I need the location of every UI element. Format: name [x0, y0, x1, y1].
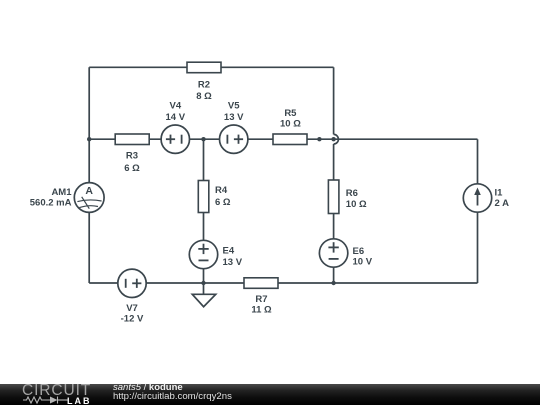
- node dot right of R5: [317, 137, 321, 141]
- svg-text:8 Ω: 8 Ω: [196, 91, 212, 102]
- svg-text:V5: V5: [228, 101, 240, 112]
- resistor R2: [187, 62, 221, 102]
- wire left rail: [88, 67, 90, 283]
- voltage source E6: [319, 239, 372, 267]
- svg-text:V4: V4: [169, 101, 181, 112]
- svg-text:R7: R7: [255, 294, 267, 305]
- svg-text:A: A: [85, 185, 93, 197]
- svg-text:V7: V7: [126, 303, 138, 314]
- wire center vertical: [203, 139, 205, 283]
- wire mid-right vertical upper: [333, 67, 335, 134]
- svg-text:6 Ω: 6 Ω: [124, 163, 140, 174]
- CircuitLab logo: [0, 384, 100, 405]
- footer text line 1: [113, 383, 183, 393]
- voltage source V5: [220, 101, 248, 154]
- svg-text:13 V: 13 V: [224, 112, 244, 123]
- wire middle horizontal: [89, 138, 477, 140]
- svg-text:I1: I1: [495, 188, 504, 199]
- svg-text:13 V: 13 V: [223, 257, 243, 268]
- node dot at hop center: [331, 137, 335, 141]
- resistor R5: [273, 108, 307, 144]
- resistor R3: [115, 134, 149, 174]
- svg-text:AM1: AM1: [51, 187, 72, 198]
- footer text line 2: [113, 391, 232, 402]
- wire right rail: [477, 139, 479, 283]
- resistor R6: [328, 180, 367, 214]
- wire mid-right vertical lower: [333, 144, 335, 283]
- svg-text:10 Ω: 10 Ω: [346, 199, 367, 210]
- svg-text:E6: E6: [353, 246, 365, 257]
- svg-text:10 V: 10 V: [353, 256, 373, 267]
- svg-text:-12 V: -12 V: [121, 313, 144, 324]
- voltage source V7: [118, 269, 146, 324]
- svg-text:E4: E4: [223, 245, 235, 256]
- current source I1: [463, 184, 509, 212]
- svg-text:11 Ω: 11 Ω: [251, 305, 272, 316]
- svg-text:14 V: 14 V: [166, 112, 186, 123]
- voltage source V4: [161, 101, 189, 154]
- wire hop over middle wire: [334, 134, 339, 144]
- svg-text:R2: R2: [198, 79, 210, 90]
- footer bar: [0, 384, 540, 405]
- ammeter AM1: [30, 183, 104, 213]
- node junction at left rail / middle wire: [87, 137, 91, 141]
- svg-text:560.2 mA: 560.2 mA: [30, 198, 72, 209]
- resistor R4: [198, 181, 231, 213]
- wire bottom horizontal: [89, 282, 477, 284]
- node junction bottom E6: [331, 281, 335, 285]
- resistor R7: [244, 278, 278, 316]
- svg-text:R3: R3: [126, 151, 138, 162]
- voltage source E4: [189, 240, 242, 268]
- svg-text:2 A: 2 A: [495, 198, 510, 209]
- ground: [192, 283, 215, 307]
- wire top horizontal: [89, 66, 333, 68]
- svg-text:R4: R4: [215, 185, 228, 196]
- node junction between V4 and V5: [201, 137, 205, 141]
- node junction bottom center: [201, 281, 205, 285]
- svg-text:R6: R6: [346, 188, 358, 199]
- svg-text:R5: R5: [284, 108, 297, 119]
- svg-text:10 Ω: 10 Ω: [280, 119, 301, 130]
- svg-text:6 Ω: 6 Ω: [215, 197, 231, 208]
